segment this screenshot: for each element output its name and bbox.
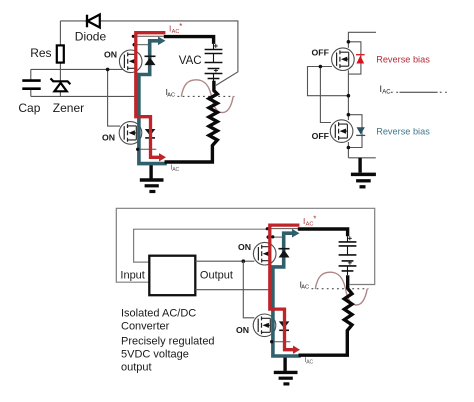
svg-text:VAC: VAC bbox=[179, 55, 202, 67]
svg-text:Output: Output bbox=[200, 269, 233, 281]
svg-text:Diode: Diode bbox=[75, 30, 107, 44]
svg-text:OFF: OFF bbox=[312, 131, 329, 141]
svg-text:Converter: Converter bbox=[121, 321, 170, 333]
svg-text:output: output bbox=[121, 361, 152, 373]
svg-text:Res: Res bbox=[30, 46, 51, 60]
svg-text:OFF: OFF bbox=[312, 47, 329, 57]
svg-text:Reverse bias: Reverse bias bbox=[376, 54, 430, 64]
svg-text:Precisely regulated: Precisely regulated bbox=[121, 336, 215, 348]
svg-text:5VDC voltage: 5VDC voltage bbox=[121, 349, 189, 361]
svg-text:Isolated AC/DC: Isolated AC/DC bbox=[121, 308, 196, 320]
svg-text:Cap: Cap bbox=[18, 101, 40, 115]
svg-text:Reverse bias: Reverse bias bbox=[376, 127, 430, 137]
svg-text:Zener: Zener bbox=[53, 101, 84, 115]
svg-text:AC: AC bbox=[382, 90, 391, 96]
svg-text:Input: Input bbox=[120, 269, 144, 281]
